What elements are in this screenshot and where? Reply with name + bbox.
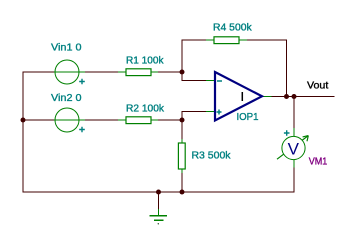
op-amp minus sign <box>217 80 222 82</box>
svg-text:R1 100k: R1 100k <box>126 55 164 67</box>
wire ground stub <box>158 192 160 210</box>
svg-text:Vin2 0: Vin2 0 <box>51 92 82 104</box>
resistor R3 <box>178 143 185 169</box>
wire green lead R4 <box>206 39 247 41</box>
junction output feedback <box>284 94 289 99</box>
junction output voltmeter <box>292 94 297 99</box>
wire green lead R3 <box>181 139 183 173</box>
wire green lead voltmeter top <box>293 128 295 137</box>
wire feedback right down to output <box>239 40 287 97</box>
wire green lead op-amp noninverting <box>206 111 215 113</box>
wire green lead R2 <box>118 119 158 121</box>
svg-text:R2 100k: R2 100k <box>126 103 165 115</box>
voltage source Vin1 <box>54 60 85 84</box>
voltage source Vin2 <box>54 108 85 132</box>
resistor R1 <box>126 69 151 76</box>
resistor R2 <box>126 117 151 124</box>
resistor R4 <box>214 37 239 44</box>
junction node left rail row2 <box>21 118 26 123</box>
wire row2 Vin2 to node <box>23 119 182 121</box>
junction node B <box>180 118 185 123</box>
op-amp I mark <box>241 92 243 101</box>
wire voltmeter branch down <box>293 97 295 193</box>
wire green lead voltmeter bottom <box>293 159 295 168</box>
svg-text:Vin1 0: Vin1 0 <box>51 42 82 54</box>
junction R3 bottom <box>180 190 185 195</box>
voltmeter VM1 <box>277 130 308 159</box>
wire left rail <box>22 72 24 192</box>
svg-text:VM1: VM1 <box>309 156 328 168</box>
svg-text:V: V <box>288 139 300 158</box>
svg-text:IOP1: IOP1 <box>237 111 259 123</box>
wire bottom rail <box>23 191 294 193</box>
wire green lead op-amp output <box>262 96 272 98</box>
wire green lead op-amp inverting <box>206 80 215 82</box>
junction ground <box>156 190 161 195</box>
wire row1 Vin1 to node <box>23 71 182 73</box>
wire node A to inverting input step <box>182 72 206 81</box>
wire node B to noninverting input step <box>182 112 206 121</box>
wire R3 branch down <box>181 120 183 192</box>
op-amp U1 triangle <box>215 72 262 121</box>
junction node A <box>180 70 185 75</box>
svg-text:R3 500k: R3 500k <box>192 149 232 161</box>
wire green lead ground <box>158 209 160 216</box>
op-amp plus sign <box>217 110 222 115</box>
svg-text:R4 500k: R4 500k <box>213 22 252 34</box>
wire feedback up from node A <box>182 40 214 72</box>
ground <box>149 216 167 225</box>
wire green lead R1 <box>118 71 158 73</box>
wire output to Vout <box>266 96 334 98</box>
svg-text:Vout: Vout <box>307 79 328 91</box>
